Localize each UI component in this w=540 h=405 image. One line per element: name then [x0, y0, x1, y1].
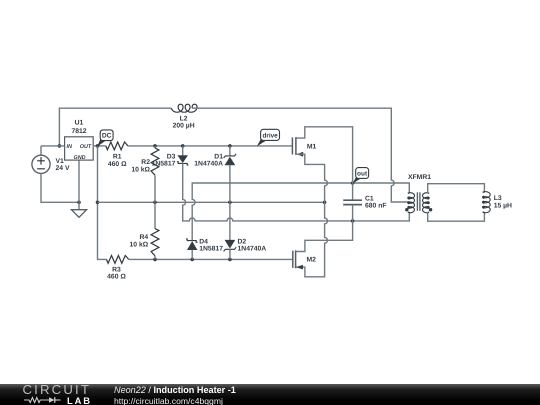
mid rail wire	[98, 201, 325, 203]
node C1 top / M1 drain on out rail	[351, 181, 355, 185]
wire gate rail to M2 gate	[129, 258, 293, 260]
wire DC riser down to R3	[98, 146, 107, 260]
svg-text:OUT: OUT	[80, 144, 92, 150]
svg-text:1N5817: 1N5817	[152, 161, 176, 168]
svg-text:M1: M1	[307, 144, 317, 151]
svg-text:10 kΩ: 10 kΩ	[130, 241, 149, 248]
svg-text:1N4740A: 1N4740A	[194, 161, 223, 168]
wire M1 drain to out rail	[296, 127, 353, 183]
wire U1 OUT to R1	[93, 145, 106, 147]
wire M1 source to M2 source chain	[296, 154, 328, 277]
node junction V1 minus / U1 GND	[77, 201, 81, 205]
svg-text:R4: R4	[139, 234, 148, 241]
svg-text:24 V: 24 V	[56, 165, 70, 172]
regulator U1 7812	[65, 137, 94, 160]
flag DC	[97, 139, 106, 147]
node DC riser on mid rail	[96, 201, 100, 205]
wire from L2 down to transformer center tap	[192, 108, 409, 202]
svg-text:DC: DC	[102, 133, 112, 140]
svg-text:200 µH: 200 µH	[173, 122, 195, 129]
MOSFET M2	[292, 251, 294, 268]
phase dot secondary	[429, 208, 432, 211]
svg-text:IN: IN	[67, 144, 72, 150]
svg-text:460 Ω: 460 Ω	[108, 161, 127, 168]
node D3 top	[181, 144, 185, 148]
svg-text:R1: R1	[113, 154, 122, 161]
M2 source arrow	[296, 265, 303, 270]
svg-text:10 kΩ: 10 kΩ	[131, 167, 150, 174]
resistor R3 460 Ohm	[107, 256, 129, 264]
transformer secondary coil	[422, 193, 429, 213]
svg-text:D3: D3	[167, 153, 176, 160]
node D2 bottom	[228, 258, 232, 262]
wire C1 bottom lead	[352, 205, 354, 221]
inductor L3 work coil 15uH	[483, 192, 491, 213]
svg-text:GND: GND	[74, 155, 86, 161]
svg-text:drive: drive	[262, 133, 278, 140]
svg-text:680 nF: 680 nF	[365, 203, 387, 210]
svg-text:1N5817: 1N5817	[199, 246, 223, 253]
svg-text:R3: R3	[112, 266, 121, 273]
node sources on mid rail	[323, 201, 327, 205]
inductor L2 200uH	[171, 104, 197, 112]
svg-text:D4: D4	[199, 238, 208, 245]
node R4 bottom	[153, 258, 157, 262]
voltage source V1 24V	[32, 155, 50, 173]
resistor R1 460 Ohm	[106, 142, 128, 150]
node junction at U1 input	[58, 144, 62, 148]
node C1 bottom / M2 drain on tank rail	[351, 219, 355, 223]
node R2/R4 on mid rail	[153, 201, 157, 205]
svg-text:M2: M2	[307, 257, 317, 264]
svg-text:15 µH: 15 µH	[494, 203, 512, 210]
ground symbol	[78, 202, 80, 209]
flag out	[352, 177, 361, 184]
transformer XFMR1 primary coil	[408, 193, 415, 213]
node R2 top	[153, 144, 157, 148]
svg-text:L2: L2	[180, 115, 188, 122]
node D1/D2 on mid rail	[228, 201, 232, 205]
transformer core	[416, 192, 418, 211]
out rail / wire to D4 and transformer primary top	[192, 183, 409, 241]
diode D4 1N5817 schottky	[186, 239, 198, 242]
svg-text:D1: D1	[214, 153, 223, 160]
svg-text:L3: L3	[494, 195, 502, 202]
svg-text:C1: C1	[365, 195, 374, 202]
capacitor C1 680nF	[343, 199, 362, 201]
phase dot primary	[405, 208, 408, 211]
diode D3 1N5817 schottky	[182, 146, 184, 156]
wire D3 cathode to tank rail	[183, 163, 410, 221]
node D4 bottom	[190, 258, 194, 262]
wire secondary to L3 bottom	[428, 212, 485, 221]
resistor R2 10k	[154, 146, 156, 148]
svg-text:U1: U1	[75, 119, 84, 126]
M1 source arrow	[297, 152, 304, 157]
diode D2 1N4740A zener	[229, 202, 231, 240]
node DC junction	[96, 144, 100, 148]
wire secondary to L3 top	[428, 184, 485, 194]
wire V1 plus to U1 IN	[41, 145, 65, 147]
diode D1 1N4740A zener	[229, 146, 231, 156]
svg-text:D2: D2	[238, 238, 247, 245]
svg-text:out: out	[357, 171, 368, 178]
svg-text:R2: R2	[141, 159, 150, 166]
node D1 top	[228, 144, 232, 148]
wire from input node up and across to L2	[59, 108, 171, 146]
wire C1 top lead	[352, 183, 354, 200]
svg-text:1N4740A: 1N4740A	[238, 246, 267, 253]
resistor R4 10k	[154, 202, 156, 228]
flag drive	[257, 139, 267, 147]
wire U1 GND down	[78, 160, 80, 202]
wire gate rail to M1 gate	[128, 145, 292, 147]
wire V1 minus to ground node	[41, 173, 79, 202]
wire M2 drain to tank rail	[296, 221, 353, 252]
svg-text:460 Ω: 460 Ω	[107, 274, 126, 281]
svg-text:XFMR1: XFMR1	[408, 174, 431, 181]
MOSFET M1	[291, 137, 293, 154]
svg-text:7812: 7812	[71, 128, 86, 135]
svg-text:V1: V1	[56, 158, 65, 165]
